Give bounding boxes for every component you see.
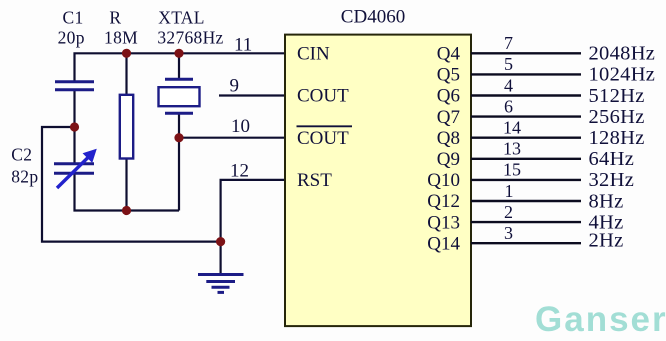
svg-text:20p: 20p [58,27,85,47]
svg-text:3: 3 [504,223,513,243]
svg-text:18M: 18M [104,27,138,47]
svg-text:5: 5 [504,54,513,74]
svg-text:RST: RST [297,170,332,191]
svg-text:12: 12 [230,161,249,182]
svg-text:11: 11 [234,35,252,56]
svg-text:2048Hz: 2048Hz [589,43,656,65]
svg-text:256Hz: 256Hz [589,106,645,128]
svg-text:C1: C1 [62,8,83,28]
svg-text:2Hz: 2Hz [589,230,624,252]
svg-text:32Hz: 32Hz [589,169,635,191]
svg-text:10: 10 [231,116,250,137]
svg-text:Q12: Q12 [427,191,460,212]
svg-text:Q9: Q9 [437,149,460,170]
svg-text:Ganser: Ganser [535,300,666,339]
svg-text:1: 1 [505,181,514,201]
svg-text:Q14: Q14 [427,233,460,254]
svg-text:CD4060: CD4060 [341,7,405,28]
svg-text:64Hz: 64Hz [589,148,635,170]
svg-text:2: 2 [504,202,513,222]
svg-text:Q6: Q6 [437,86,460,107]
svg-text:9: 9 [230,75,240,96]
svg-text:128Hz: 128Hz [589,127,645,149]
svg-text:6: 6 [504,96,513,116]
svg-text:13: 13 [503,139,521,159]
svg-text:15: 15 [503,160,521,180]
svg-text:7: 7 [504,33,513,53]
svg-text:COUT: COUT [297,128,349,149]
svg-text:32768Hz: 32768Hz [157,27,223,47]
svg-text:512Hz: 512Hz [589,85,645,107]
svg-text:R: R [109,8,121,28]
svg-text:Q8: Q8 [437,128,460,149]
svg-text:82p: 82p [11,166,38,186]
svg-text:Q4: Q4 [437,44,461,65]
svg-text:Q10: Q10 [427,170,460,191]
svg-text:Q13: Q13 [427,212,460,233]
svg-text:CIN: CIN [297,44,330,65]
svg-text:8Hz: 8Hz [589,190,624,212]
svg-text:XTAL: XTAL [158,8,204,28]
svg-text:C2: C2 [11,144,32,164]
svg-text:4: 4 [504,75,513,95]
svg-text:COUT: COUT [297,86,349,107]
svg-text:Q7: Q7 [437,107,460,128]
svg-text:1024Hz: 1024Hz [589,64,656,86]
svg-text:14: 14 [503,118,521,138]
svg-text:Q5: Q5 [437,65,460,86]
